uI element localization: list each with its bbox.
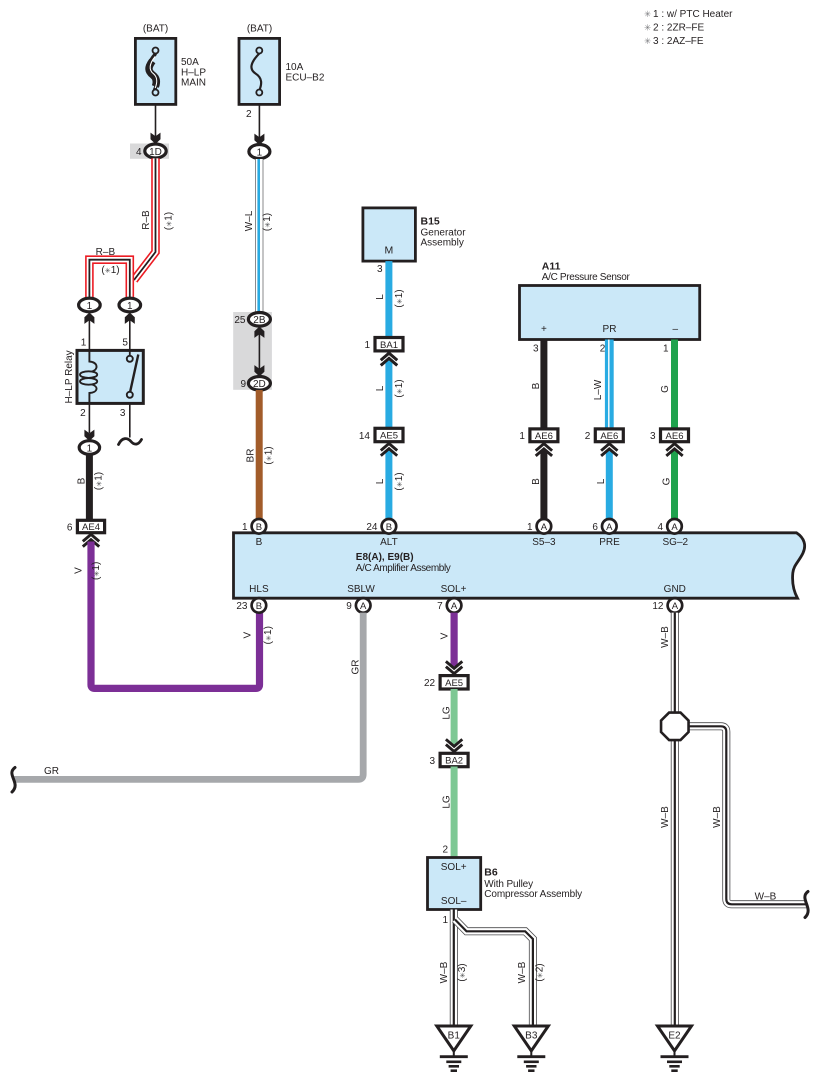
pin 1 A amplifier S5-3	[537, 519, 552, 534]
svg-text:25: 25	[234, 315, 246, 326]
svg-text:2: 2	[246, 109, 252, 120]
svg-text:ECU–B2: ECU–B2	[286, 73, 325, 84]
svg-text:(✳1): (✳1)	[263, 626, 274, 644]
wire V from AE4 to amplifier HLS	[91, 542, 260, 689]
svg-text:(✳1): (✳1)	[394, 472, 405, 490]
svg-text:–: –	[673, 324, 679, 335]
svg-text:(✳3): (✳3)	[457, 963, 468, 981]
svg-text:V: V	[439, 632, 450, 639]
svg-text:B: B	[256, 522, 262, 533]
svg-text:W–B: W–B	[439, 961, 450, 983]
svg-text:B: B	[77, 477, 88, 484]
svg-text:12: 12	[652, 601, 664, 612]
svg-text:3: 3	[533, 343, 539, 354]
svg-text:H–LP Relay: H–LP Relay	[64, 350, 75, 403]
svg-text:1: 1	[87, 443, 93, 454]
connector 1 (ECU-B2 feed)	[249, 145, 270, 159]
svg-text:GR: GR	[351, 660, 362, 675]
svg-text:E2: E2	[668, 1031, 681, 1042]
svg-text:M: M	[385, 245, 394, 257]
svg-text:L: L	[375, 294, 386, 300]
svg-text:✳: ✳	[644, 9, 652, 19]
svg-text:4: 4	[136, 147, 142, 158]
svg-text:SOL+: SOL+	[441, 584, 467, 595]
gray patch connectors 2B 2D	[233, 312, 272, 390]
svg-text:LG: LG	[442, 795, 453, 809]
svg-text:GND: GND	[664, 584, 686, 595]
wire L generator to BA1	[385, 261, 392, 338]
svg-text:L: L	[375, 478, 386, 484]
pin 12 A amplifier GND	[668, 598, 683, 613]
svg-text:(✳1): (✳1)	[94, 472, 105, 490]
compressor B6 With Pulley Compressor Assembly	[428, 858, 481, 910]
svg-text:7: 7	[437, 601, 443, 612]
relay H-LP Relay	[77, 350, 143, 403]
svg-text:AE4: AE4	[82, 522, 100, 533]
fuse 50A H-LP MAIN (BAT)	[135, 38, 175, 104]
arrow into 1D	[151, 133, 161, 144]
chevrons below BA1	[381, 353, 397, 365]
svg-text:(✳1): (✳1)	[264, 446, 275, 464]
svg-text:24: 24	[366, 522, 378, 533]
svg-text:W–B: W–B	[660, 806, 671, 828]
svg-text:3: 3	[377, 264, 383, 275]
svg-text:A: A	[451, 601, 458, 612]
svg-text:4: 4	[658, 522, 664, 533]
svg-text:AE5: AE5	[380, 431, 398, 442]
svg-text:6: 6	[67, 522, 73, 533]
svg-text:PRE: PRE	[599, 537, 620, 548]
connector 1 (below relay)	[79, 441, 99, 455]
svg-text:GR: GR	[44, 766, 59, 777]
arrow into connector 1	[254, 134, 264, 145]
break squiggle GR left end	[12, 768, 15, 793]
junction 3 BA2	[440, 753, 468, 766]
svg-text:1: 1	[242, 522, 248, 533]
sensor A11 A/C Pressure Sensor	[520, 286, 700, 340]
svg-text:2: 2	[600, 343, 606, 354]
svg-text:1: 1	[127, 301, 133, 312]
svg-text:10A: 10A	[286, 62, 304, 73]
connector 1 (relay pin 1 side)	[88, 318, 90, 350]
svg-text:1: 1	[87, 301, 93, 312]
wire R-B branch loop to relay pins	[89, 260, 129, 298]
svg-text:✳: ✳	[644, 22, 652, 32]
wire L-W sensor PR to AE6	[605, 340, 614, 430]
wire G AE6 to amplifier SG-2	[671, 451, 678, 520]
svg-text:L: L	[596, 478, 607, 484]
wire between 2B and 2D	[258, 330, 260, 371]
svg-text:B: B	[531, 478, 542, 485]
svg-text:2: 2	[442, 845, 448, 856]
wire B from connector to AE4	[86, 454, 93, 521]
wire L AE6 to amplifier PRE	[606, 451, 613, 520]
svg-text:23: 23	[236, 601, 248, 612]
svg-text:2B: 2B	[253, 315, 266, 326]
svg-text:(✳2): (✳2)	[535, 963, 546, 981]
svg-text:(BAT): (BAT)	[143, 24, 168, 35]
break squiggle at relay pin 3	[119, 439, 142, 445]
svg-text:B: B	[531, 382, 542, 389]
svg-text:R–B: R–B	[96, 247, 116, 258]
wire W-L from connector 1 to 2B	[255, 159, 263, 313]
svg-text:MAIN: MAIN	[181, 78, 206, 89]
wire relay pin 2 to connector 1	[88, 403, 90, 433]
wire BR from 2D to amplifier B	[256, 390, 263, 519]
chevrons below AE6 1	[536, 444, 552, 456]
svg-text:B: B	[386, 522, 392, 533]
svg-text:(✳1): (✳1)	[394, 379, 405, 397]
svg-text:BR: BR	[246, 449, 257, 463]
wire W-B branch to ground B3	[455, 920, 533, 1027]
wire L BA1 to AE5	[385, 360, 392, 429]
splice octagon	[661, 713, 689, 741]
svg-text:1: 1	[519, 431, 525, 442]
wire relay pin 3 open end	[129, 403, 131, 437]
svg-text:2 : 2ZR–FE: 2 : 2ZR–FE	[653, 23, 704, 34]
wire LG AE5 to BA2	[451, 689, 458, 744]
svg-text:V: V	[242, 632, 253, 639]
svg-text:A/C Pressure Sensor: A/C Pressure Sensor	[542, 272, 631, 283]
svg-text:B1: B1	[448, 1031, 461, 1042]
svg-text:3: 3	[430, 756, 436, 767]
svg-text:3: 3	[120, 408, 126, 419]
svg-text:+: +	[541, 324, 547, 335]
chevrons into AE5	[446, 661, 462, 673]
svg-text:R–B: R–B	[141, 210, 152, 230]
svg-text:✳: ✳	[644, 36, 652, 46]
connector 4 1D	[145, 144, 166, 158]
generator B15 Generator Assembly	[363, 208, 416, 261]
ground B1	[437, 1026, 471, 1051]
svg-text:V: V	[74, 567, 85, 574]
svg-text:1: 1	[364, 340, 370, 351]
svg-text:L–W: L–W	[593, 379, 604, 400]
svg-text:B6: B6	[484, 866, 498, 878]
svg-text:(BAT): (BAT)	[247, 24, 272, 35]
pin 1 B amplifier	[252, 519, 267, 534]
svg-text:(✳1): (✳1)	[101, 265, 119, 276]
wire LG BA2 to compressor SOL+	[451, 767, 458, 858]
svg-text:(✳1): (✳1)	[91, 562, 102, 580]
chevrons below AE6 2	[601, 444, 617, 456]
junction 6 AE4	[77, 520, 104, 532]
wire L AE5 to amplifier ALT	[385, 451, 392, 520]
svg-text:S5–3: S5–3	[532, 537, 556, 548]
svg-text:1: 1	[442, 915, 448, 926]
svg-text:1: 1	[81, 338, 87, 349]
svg-text:AE6: AE6	[535, 431, 553, 442]
svg-text:1D: 1D	[149, 147, 162, 158]
relay coil	[89, 350, 96, 371]
svg-text:E8(A), E9(B): E8(A), E9(B)	[356, 552, 414, 563]
wire W-B branch from splice to right break	[687, 726, 806, 904]
wire W-B SOL- to ground B1	[450, 910, 458, 1027]
svg-text:Compressor Assembly: Compressor Assembly	[484, 889, 582, 900]
svg-text:ALT: ALT	[380, 537, 398, 548]
svg-text:2: 2	[80, 408, 86, 419]
svg-text:A: A	[606, 522, 613, 533]
svg-text:1: 1	[663, 343, 669, 354]
wire R-B from connector 1D	[134, 158, 156, 280]
svg-text:A: A	[672, 601, 679, 612]
ground B3	[514, 1026, 548, 1051]
pin 7 A amplifier SOL+	[447, 598, 462, 613]
svg-text:PR: PR	[603, 324, 617, 335]
svg-text:6: 6	[592, 522, 598, 533]
connector 25 2B	[248, 313, 270, 327]
svg-text:A/C Amplifier Assembly: A/C Amplifier Assembly	[356, 563, 451, 574]
svg-text:(✳1): (✳1)	[164, 212, 175, 230]
svg-text:22: 22	[424, 678, 436, 689]
svg-text:2: 2	[585, 431, 591, 442]
wire B AE6 to amplifier S5-3	[540, 451, 547, 520]
fuse 10A ECU-B2 (BAT)	[239, 38, 280, 104]
wire W-B GND to ground E2	[671, 613, 679, 1026]
junction 14 AE5	[375, 428, 403, 441]
connector 9 2D	[248, 377, 270, 391]
svg-text:5: 5	[122, 338, 128, 349]
junction 1 AE6	[530, 429, 558, 442]
chevrons below AE4	[83, 534, 99, 546]
svg-text:2D: 2D	[253, 379, 266, 390]
svg-text:1: 1	[527, 522, 533, 533]
svg-text:9: 9	[240, 379, 246, 390]
svg-text:B: B	[256, 537, 263, 548]
svg-text:1 : w/ PTC Heater: 1 : w/ PTC Heater	[653, 9, 733, 20]
svg-text:SOL–: SOL–	[441, 896, 467, 907]
svg-text:G: G	[661, 477, 672, 485]
chevrons below AE6 3	[666, 444, 682, 456]
svg-text:Assembly: Assembly	[421, 238, 464, 249]
chevrons into BA2	[446, 739, 462, 751]
svg-text:AE6: AE6	[666, 431, 684, 442]
pin 6 A amplifier PRE	[602, 519, 617, 534]
svg-text:AE6: AE6	[600, 431, 618, 442]
svg-text:L: L	[375, 385, 386, 391]
pin 24 B amplifier ALT	[382, 519, 397, 534]
break squiggle W-B right end	[805, 892, 808, 918]
svg-text:BA2: BA2	[445, 756, 463, 767]
svg-text:B3: B3	[525, 1031, 538, 1042]
svg-text:1: 1	[257, 147, 263, 158]
svg-text:9: 9	[346, 601, 352, 612]
pin 23 B amplifier HLS	[252, 598, 267, 613]
relay switch contact	[129, 350, 131, 356]
wire GR from SBLW to left break	[14, 613, 363, 780]
ground E2	[658, 1026, 692, 1051]
svg-text:W–B: W–B	[755, 892, 777, 903]
junction 22 AE5	[440, 676, 468, 689]
svg-text:A11: A11	[542, 261, 561, 273]
wire V SOL+ to AE5	[451, 613, 458, 667]
junction 2 AE6	[595, 429, 623, 442]
pin 9 A amplifier SBLW	[356, 598, 371, 613]
svg-text:HLS: HLS	[249, 584, 269, 595]
svg-text:A: A	[671, 522, 678, 533]
svg-text:SG–2: SG–2	[663, 537, 689, 548]
svg-text:(✳1): (✳1)	[394, 289, 405, 307]
junction 3 AE6	[661, 429, 689, 442]
chevrons below AE5	[381, 444, 397, 456]
connector 1 (relay pin 5 side)	[129, 318, 131, 350]
svg-text:B15: B15	[421, 216, 440, 228]
gray patch connector 1D	[130, 144, 169, 159]
svg-text:LG: LG	[442, 706, 453, 720]
svg-text:SOL+: SOL+	[441, 862, 467, 873]
wire fuse 50A to connector 1D	[155, 104, 157, 138]
svg-text:3: 3	[650, 431, 656, 442]
svg-text:W–B: W–B	[660, 626, 671, 648]
svg-text:W–L: W–L	[244, 210, 255, 231]
wire B sensor + to AE6	[540, 340, 547, 430]
svg-text:14: 14	[359, 431, 371, 442]
svg-text:W–B: W–B	[517, 961, 528, 983]
svg-text:(✳1): (✳1)	[262, 213, 273, 231]
svg-text:A: A	[360, 601, 367, 612]
svg-text:A: A	[541, 522, 548, 533]
svg-text:W–B: W–B	[712, 806, 723, 828]
svg-text:AE5: AE5	[445, 678, 463, 689]
wire G sensor - to AE6	[671, 340, 678, 430]
svg-text:B: B	[256, 601, 262, 612]
svg-text:BA1: BA1	[380, 340, 398, 351]
wire fuse 10A pin 2 to connector 1	[258, 104, 260, 145]
svg-text:G: G	[660, 385, 671, 393]
svg-text:3 : 2AZ–FE: 3 : 2AZ–FE	[653, 36, 704, 47]
amplifier E8(A) E9(B) A/C Amplifier Assembly	[234, 533, 805, 598]
svg-text:SBLW: SBLW	[347, 584, 375, 595]
junction 1 BA1	[375, 338, 403, 351]
pin 4 A amplifier SG-2	[667, 519, 682, 534]
